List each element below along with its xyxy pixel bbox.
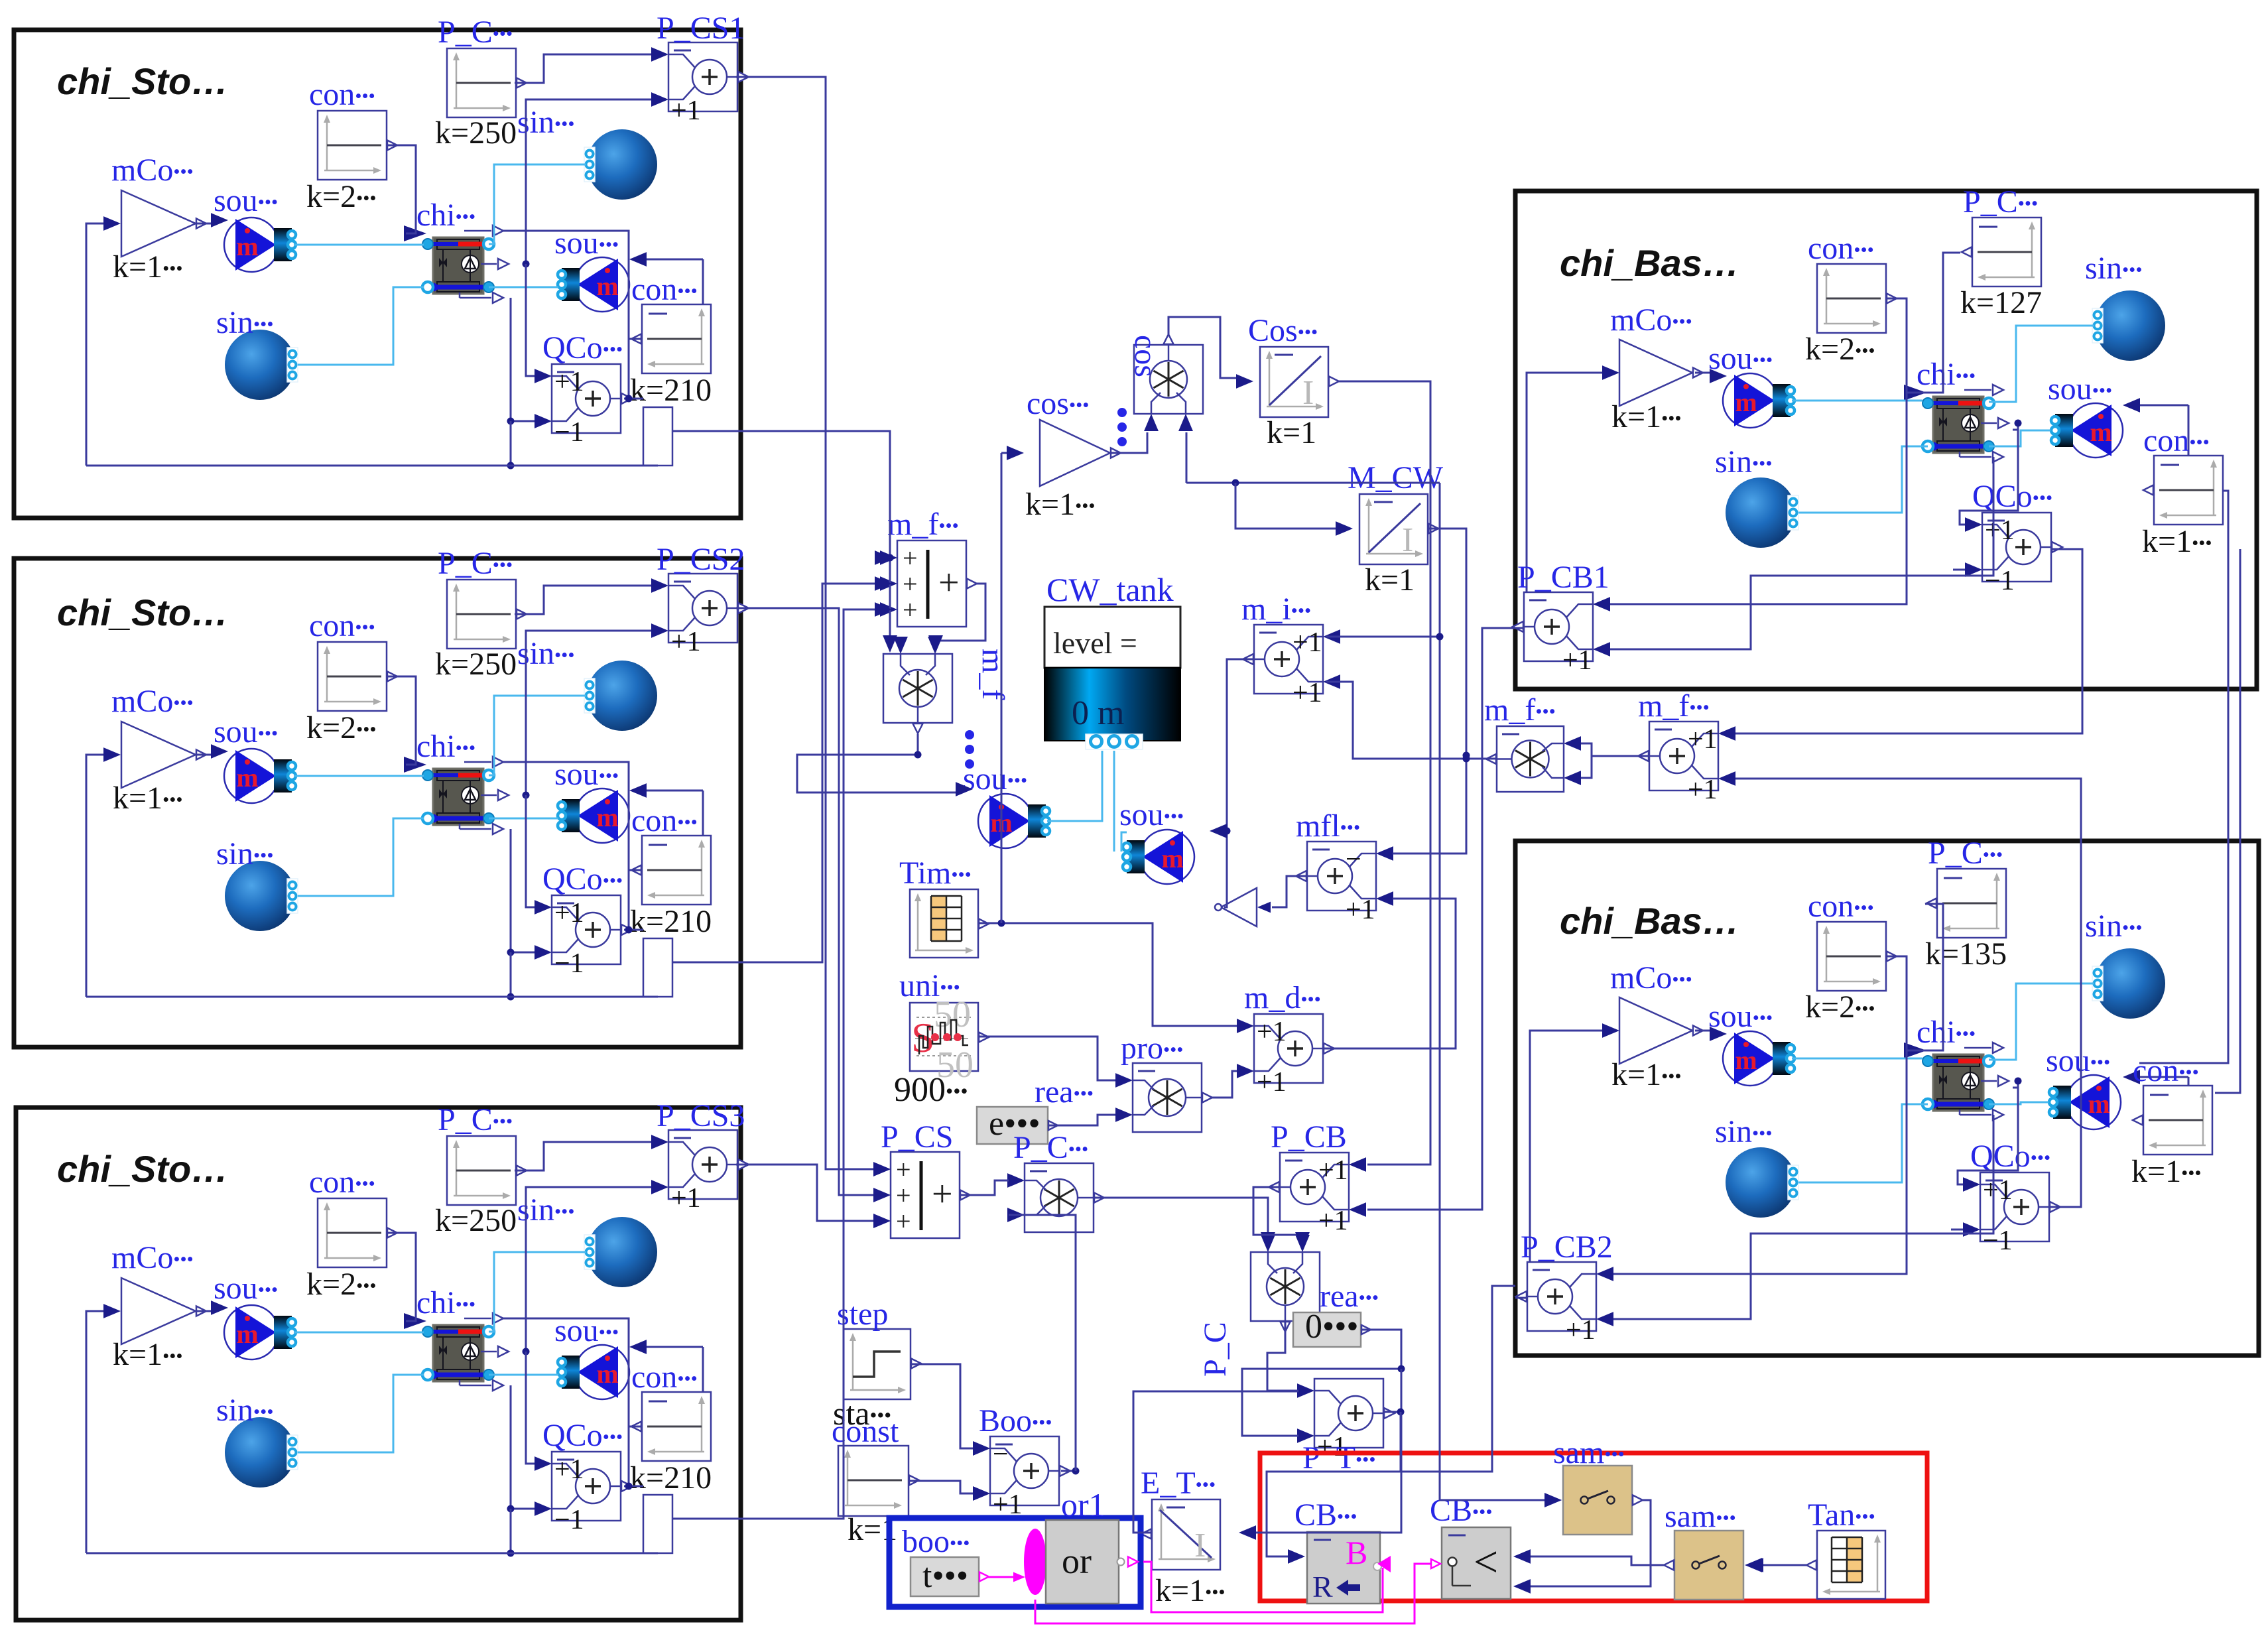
- svg-text:k=250: k=250: [435, 115, 517, 151]
- value k=1 (Bas1): [1611, 399, 1682, 434]
- flip-flop CB_B: [1307, 1532, 1381, 1604]
- label sin2 (Bas2): [1715, 1114, 1772, 1149]
- wire branch m_f in1: [885, 557, 890, 559]
- label m_f_ (rotated): [976, 649, 1011, 700]
- adder P_CS1: [651, 42, 749, 126]
- const con2 k=210 (3): [631, 1392, 711, 1461]
- arrowhead sou2 control (2): [629, 783, 647, 798]
- const con1 k=2 (Bas1): [1817, 264, 1897, 333]
- svg-text:m: m: [236, 231, 258, 261]
- svg-text:or: or: [1062, 1541, 1092, 1581]
- value k=1 (1): [113, 249, 183, 285]
- value k=1 (Bas2): [1611, 1057, 1682, 1092]
- wire Cos to P_CB: [1339, 381, 1430, 1165]
- pump sou2 (2): [558, 789, 629, 843]
- value k=1 M_CW: [1365, 562, 1415, 598]
- value k=2 (2): [306, 710, 377, 745]
- value k=2 (Bas1): [1805, 332, 1875, 367]
- label P_CS1: [657, 11, 745, 46]
- pump sou1 (1): [224, 218, 296, 272]
- wire chi P to QCo (Bas1): [1960, 423, 2018, 525]
- wire uni to pro: [978, 1037, 1115, 1080]
- wire QCo Bas2 to m_f adder b: [1735, 779, 2081, 1207]
- label step: [837, 1297, 888, 1332]
- chiller chi (3): [404, 1313, 509, 1391]
- svg-text:m: m: [596, 271, 618, 301]
- junction chi P (3): [523, 1348, 530, 1356]
- wire Boo out: [1061, 1470, 1074, 1472]
- sphere sin1 (1): [584, 129, 657, 200]
- gain mCo (Bas1): [1619, 340, 1703, 406]
- comparator CB less: [1442, 1527, 1511, 1599]
- svg-text:cos: cos: [1128, 335, 1163, 377]
- svg-text:const: const: [832, 1414, 899, 1449]
- const con2 k=210 (2): [631, 836, 711, 905]
- wire product to Cos: [1168, 317, 1237, 378]
- label m_f adder right: [1638, 688, 1710, 724]
- svg-text:m: m: [1735, 387, 1757, 417]
- svg-text:chi_Bas…: chi_Bas…: [1560, 900, 1739, 942]
- wire QCo lower stub (Bas2): [1951, 1229, 1963, 1231]
- wire chi bottom out down (1): [510, 421, 512, 466]
- fluid wire sin2 to chi (3): [298, 1375, 424, 1452]
- adder m_d: [1237, 1014, 1334, 1098]
- label m_f sum: [887, 507, 959, 542]
- wire con2 down (2): [628, 869, 630, 930]
- wire chi P to P_CS3: [526, 1187, 651, 1352]
- svg-text:+1: +1: [1257, 1017, 1287, 1047]
- arrowhead sou1 control (Bas2): [1710, 1027, 1727, 1041]
- arrowhead m_f in2: [875, 576, 892, 591]
- wire P_C to P_CS1: [515, 54, 651, 83]
- subsystem box chi_Bas2: [1515, 841, 2259, 1356]
- multiplier P_C (center): [1007, 1163, 1104, 1232]
- adder P_CB2: [1516, 1262, 1613, 1346]
- label chi (2): [416, 729, 475, 764]
- wire chi top out (1): [503, 231, 629, 339]
- value k=2 (Bas2): [1805, 989, 1875, 1025]
- value k=210 (3): [630, 1460, 712, 1495]
- step source sta: [844, 1329, 921, 1399]
- wire P_CS1 exit: [736, 76, 741, 78]
- arrowhead Boo in2: [973, 1486, 990, 1501]
- junction QCo lower (2): [507, 949, 515, 956]
- pump sou1 (Bas2): [1723, 1031, 1795, 1086]
- label cos product (rotated): [1128, 335, 1163, 377]
- svg-text:k=210: k=210: [630, 373, 712, 408]
- fluid wire sou1 to chi (Bas1): [1792, 400, 1922, 402]
- wire Tan to sam2: [1762, 1564, 1806, 1566]
- sphere sin2 (3): [225, 1417, 298, 1488]
- value k=1 Cos: [1267, 415, 1316, 450]
- multiplier m_f (right): [1486, 726, 1581, 792]
- wire M_CW to mfl upper: [1393, 529, 1466, 854]
- junction sou4 control: [1224, 828, 1231, 835]
- wire chi P to P_CS2: [526, 631, 651, 795]
- wire chi P to QCo upper (2): [526, 795, 535, 907]
- arrowhead or input (magenta): [1013, 1572, 1025, 1582]
- wire chi P to P_CS1: [526, 99, 651, 264]
- svg-text:B: B: [1346, 1534, 1367, 1571]
- label QCo (2): [542, 861, 623, 897]
- value 900: [894, 1071, 968, 1109]
- junction x2211: [1463, 755, 1470, 763]
- ramp block Cos (k=1): [1260, 347, 1339, 417]
- label sin1 (Bas2): [2085, 909, 2142, 944]
- svg-text:−1: −1: [554, 948, 584, 979]
- sphere sin1 (Bas1): [2092, 290, 2165, 361]
- label mCo (1): [111, 153, 194, 188]
- fluid wire chi to sin1 (2): [489, 696, 586, 775]
- junction M_CW bus: [1463, 752, 1470, 759]
- wire P_T out: [1383, 1411, 1401, 1413]
- wire sensor exit (2): [672, 962, 741, 964]
- label QCo (1): [542, 330, 623, 365]
- label Boo: [979, 1403, 1052, 1438]
- svg-text:+1: +1: [1562, 645, 1592, 676]
- label sou2 (Bas1): [2048, 371, 2112, 407]
- junction QCo-con2 (2): [625, 926, 633, 934]
- label P_C (3): [438, 1102, 513, 1137]
- wire right margin bus: [2139, 491, 2228, 1063]
- value k=250 (2): [435, 647, 517, 682]
- label sou1 (2): [214, 714, 278, 749]
- fluid wire sin2 to chi (1): [298, 287, 424, 365]
- wire P_CS1 to P_CS sum: [741, 77, 879, 1169]
- wire bus to m_i upper: [1326, 636, 1440, 638]
- arrowhead CB_B input: [1288, 1549, 1305, 1564]
- const con1 k=2 (Bas2): [1817, 922, 1897, 991]
- group frame (blue) or1: [889, 1518, 1141, 1607]
- wire feedback bottom (3): [86, 1552, 658, 1554]
- wire feedback to mCo (2): [86, 755, 105, 997]
- wire P_C to P_CS3: [515, 1142, 651, 1171]
- label m_d: [1244, 980, 1321, 1015]
- svg-text:or1: or1: [1061, 1486, 1105, 1523]
- wire to sou4 control: [1214, 830, 1227, 832]
- multiplier pro: [1115, 1063, 1212, 1132]
- value k=127 (Bas1): [1960, 285, 2042, 320]
- wire con2 out (1): [629, 338, 642, 340]
- svg-text:P_CS2: P_CS2: [657, 542, 745, 577]
- arrowhead sam1 input: [1544, 1493, 1562, 1507]
- logic block or: [1046, 1520, 1125, 1604]
- svg-text:+1: +1: [1688, 775, 1718, 805]
- label rea 0: [1320, 1279, 1379, 1314]
- wire chi bottom to QCo lower (2): [511, 829, 535, 952]
- arrowhead mCo input (1): [103, 216, 121, 231]
- svg-text:+: +: [932, 1174, 953, 1215]
- sphere sin2 (Bas1): [1726, 477, 1798, 548]
- value k=2 (3): [306, 1267, 377, 1302]
- label sin2 (3): [216, 1393, 273, 1428]
- time table Tim: [910, 889, 989, 958]
- arrowhead CB less in2: [1513, 1579, 1531, 1594]
- label P_CS2: [657, 542, 745, 577]
- wire QCo3 bus to m_f: [741, 609, 885, 1519]
- svg-text:+: +: [896, 1206, 911, 1236]
- adder QCo (1): [535, 364, 632, 448]
- wire QCo out (3): [624, 1486, 643, 1488]
- wire P_C to P_CS2: [515, 586, 651, 614]
- wire to sou2 control (2): [646, 790, 703, 792]
- fluid wire tank to sou4: [1113, 751, 1115, 852]
- sensor block (2): [643, 938, 672, 997]
- label P_CB2: [1521, 1230, 1613, 1265]
- wire to sou2 control (3): [646, 1346, 703, 1348]
- junction chi P (1): [523, 261, 530, 268]
- label sou2 (1): [554, 225, 619, 261]
- adder P_CB: [1269, 1153, 1366, 1236]
- value sta: [833, 1395, 891, 1432]
- time table Tan: [1806, 1531, 1885, 1599]
- wire pro to m_d: [1212, 1071, 1237, 1098]
- const P_C k=135 (Bas2): [1926, 869, 2006, 938]
- wire feedback to mCo (3): [86, 1311, 105, 1553]
- wire P_CS3 exit: [736, 1164, 741, 1166]
- svg-text:+1: +1: [1257, 1067, 1287, 1098]
- svg-text:k=210: k=210: [630, 1460, 712, 1495]
- label P_CB: [1271, 1119, 1347, 1155]
- adder m_i: [1243, 625, 1340, 708]
- const con2 k=1 (Bas2): [2133, 1086, 2212, 1155]
- wire P_CB1 to P_CB: [1367, 628, 1515, 1210]
- label rea e: [1035, 1074, 1094, 1109]
- wire Tim to m_d: [978, 923, 1237, 1026]
- wire QCo Bas1 to m_f adder a: [1735, 549, 2082, 733]
- wire P_C to chi (Bas1): [1906, 253, 1960, 393]
- svg-text:+: +: [938, 562, 960, 603]
- wire chi P stub (Bas2): [2013, 1087, 2018, 1089]
- junction rea0: [1398, 1365, 1405, 1373]
- wire const to Boo: [909, 1481, 974, 1493]
- value k=1b (Bas2): [2131, 1154, 2202, 1189]
- wire mCo to sou1 (Bas1): [1695, 372, 1711, 374]
- wire con1 to chi (2): [387, 676, 416, 765]
- label P_CS sum: [881, 1119, 953, 1155]
- svg-text:m: m: [1161, 844, 1183, 873]
- wire bus y728: [1186, 482, 1440, 484]
- const P_C k=250 (3): [447, 1136, 527, 1205]
- magenta input ellipse (or): [1024, 1529, 1046, 1595]
- svg-text:k=250: k=250: [435, 647, 517, 682]
- arrowhead Cos input: [1236, 374, 1253, 389]
- wire to sou2 control (Bas2): [2139, 1076, 2188, 1078]
- label sou1 (Bas2): [1708, 999, 1773, 1034]
- label chi (1): [416, 198, 475, 233]
- subsystem box chi_Sto2: [14, 558, 741, 1047]
- arrowhead P_CS in1: [873, 1162, 891, 1176]
- wire feedback to mCo (Bas2): [1530, 1031, 1604, 1298]
- svg-text:k=1: k=1: [1365, 562, 1415, 598]
- fluid wire sou4 port: [1121, 832, 1127, 852]
- svg-text:−: −: [1346, 844, 1361, 875]
- fluid wire chi to sin2 (Bas2): [1798, 1104, 1928, 1182]
- arrowhead P_C_ in2: [1295, 1232, 1310, 1249]
- label chi (Bas2): [1917, 1015, 1976, 1050]
- fluid wire chi to sou2 (Bas2): [1989, 1102, 2048, 1104]
- svg-text:+1: +1: [1318, 1155, 1348, 1186]
- fluid wire chi to sou2 (1): [489, 286, 558, 288]
- svg-text:chi_Sto…: chi_Sto…: [57, 1148, 228, 1190]
- label sou3: [963, 761, 1027, 796]
- fluid wire chi to sin1 (3): [489, 1252, 586, 1332]
- svg-text:m: m: [596, 1359, 618, 1389]
- svg-text:I: I: [1194, 1527, 1206, 1564]
- label CB_less: [1430, 1493, 1493, 1528]
- label sou4: [1119, 797, 1184, 832]
- wire con2 out (2): [629, 869, 642, 871]
- label sou2 (3): [554, 1313, 619, 1348]
- wire QCo out (2): [624, 929, 643, 931]
- junction Boo out: [1072, 1468, 1080, 1475]
- value k=250 (3): [435, 1203, 517, 1238]
- adder mfl: [1296, 842, 1393, 925]
- label boo: [902, 1524, 970, 1559]
- svg-text:+1: +1: [554, 898, 584, 928]
- arrowhead sou2 control (3): [629, 1340, 647, 1354]
- gain mCo (Bas2): [1619, 997, 1703, 1064]
- arrowhead m_f_ in2: [928, 635, 943, 653]
- wire mCo to sou1 (3): [197, 1310, 212, 1312]
- wire mfl to small gain: [1272, 876, 1307, 907]
- wire to sou2 control (1): [646, 259, 703, 261]
- wire chi bottom out down (2): [510, 952, 512, 997]
- arrowhead sou1 control (1): [211, 213, 228, 227]
- value k=1 (2): [113, 781, 183, 816]
- gain mCo (1): [121, 190, 206, 257]
- wire feedback bottom (1): [86, 465, 658, 467]
- wire feedback bottom (2): [86, 996, 658, 998]
- label P_C (1): [438, 15, 513, 50]
- wire sam2 to CB less a: [1528, 1556, 1664, 1565]
- svg-text:−1: −1: [554, 417, 584, 448]
- wire sensor exit (1): [672, 430, 741, 432]
- svg-text:−1: −1: [1983, 1226, 2013, 1256]
- arrowhead mCo input (3): [103, 1304, 121, 1318]
- wire chi top out (2): [503, 762, 629, 870]
- wire boo to or (magenta): [987, 1576, 1019, 1578]
- wire P_CS2 to P_CS sum: [741, 608, 879, 1195]
- svg-text:+1: +1: [554, 1454, 584, 1485]
- label sin1 (Bas1): [2085, 251, 2142, 286]
- adder QCo (2): [535, 895, 632, 979]
- svg-text:+1: +1: [1292, 678, 1322, 708]
- svg-text:I: I: [1302, 374, 1314, 412]
- label mCo (3): [111, 1240, 194, 1275]
- junction chi P (Bas2): [2015, 1078, 2022, 1085]
- fluid wire chi to sou2 (Bas1): [1989, 430, 2050, 446]
- wire CB less to or loop (magenta): [1035, 1564, 1432, 1623]
- wire right margin bus b: [2215, 549, 2240, 1093]
- wire chi bottom to QCo lower (1): [511, 298, 535, 421]
- subsystem box chi_Sto1: [14, 30, 741, 518]
- label sin2 (Bas1): [1715, 444, 1772, 479]
- wire P_C center to P_C_ a: [1094, 1198, 1268, 1241]
- svg-text:M_CW: M_CW: [1348, 460, 1444, 495]
- junction QCo lower (1): [507, 418, 515, 425]
- fluid wire chi to sou2 (2): [489, 818, 558, 820]
- ramp block E_T (k=1): [1141, 1499, 1220, 1570]
- wire Boo to P_C lower: [1009, 1215, 1076, 1471]
- wire con1 to P_CB2 a: [1613, 956, 1907, 1274]
- svg-text:chi_Sto…: chi_Sto…: [57, 60, 228, 102]
- label mCo (Bas2): [1610, 960, 1692, 995]
- adder P_CS3: [651, 1130, 749, 1214]
- svg-text:chi_Sto…: chi_Sto…: [57, 592, 228, 633]
- pump sou4 (tank draw): [1123, 830, 1194, 884]
- wire feedback to mCo (Bas1): [1527, 373, 1604, 628]
- gain triangle (left): [1215, 888, 1257, 926]
- wire con2 down (1): [628, 338, 630, 399]
- svg-text:+1: +1: [671, 95, 701, 126]
- svg-text:<: <: [1474, 1538, 1498, 1586]
- wire con2 down (3): [628, 1426, 630, 1486]
- pump sou2 (3): [558, 1345, 629, 1399]
- value k=1 cos: [1025, 487, 1096, 522]
- svg-text:level =: level =: [1053, 626, 1137, 660]
- wire chi bottom to P_CB2 b: [1613, 1115, 1993, 1319]
- wire con1 to chi (3): [387, 1233, 416, 1321]
- label con1 (1): [309, 77, 375, 112]
- label P_C center: [1013, 1130, 1088, 1165]
- arrowhead m_f_ in1: [883, 635, 897, 653]
- label P_T: [1302, 1440, 1375, 1476]
- label const: [832, 1414, 899, 1449]
- wire con1 to chi (1): [387, 145, 416, 233]
- real expression rea 0: [1293, 1308, 1371, 1347]
- arrowhead M_CW input: [1336, 521, 1353, 536]
- arrowhead Boo in1: [973, 1441, 990, 1456]
- wire chi bottom to QCo lower (3): [511, 1385, 535, 1509]
- arrowhead sou4 control: [1210, 824, 1227, 838]
- title chi_Sto3: [57, 1148, 228, 1190]
- wire P_CB to P_C_ b: [1253, 1187, 1302, 1241]
- pump sou2 (1): [558, 257, 629, 312]
- sphere sin2 (Bas2): [1726, 1147, 1798, 1218]
- wire P_CS2 exit: [736, 607, 741, 609]
- label E_T: [1141, 1466, 1216, 1501]
- fluid wire chi to sin1 (Bas2): [1989, 983, 2094, 1060]
- arrowhead sou2 control (Bas2): [2123, 1070, 2140, 1084]
- svg-text:k=210: k=210: [630, 904, 712, 939]
- junction y728 M_CW: [1232, 479, 1239, 487]
- adder m_f (right): [1638, 722, 1735, 805]
- wire sensor exit (3): [672, 1518, 741, 1520]
- arrowhead sou1 control (3): [211, 1300, 228, 1315]
- svg-text:k=250: k=250: [435, 1203, 517, 1238]
- wire product in2 riser: [1186, 432, 1188, 483]
- svg-text:m: m: [236, 1319, 258, 1349]
- adder P_T: [1297, 1379, 1395, 1462]
- title chi_Bas2: [1560, 900, 1739, 942]
- svg-text:CW_tank: CW_tank: [1046, 571, 1174, 608]
- svg-text:+1: +1: [1292, 627, 1322, 658]
- label sou1 (Bas1): [1708, 341, 1773, 376]
- label sin1 (1): [517, 105, 574, 140]
- multiplier m_f_: [883, 637, 952, 733]
- const con1 k=2 (1): [318, 111, 397, 180]
- label chi (Bas1): [1917, 357, 1976, 392]
- junction QCo-con2 (1): [625, 395, 633, 403]
- junction QCo lower (3): [507, 1505, 515, 1513]
- const con2 k=210 (1): [631, 304, 711, 373]
- const con2 k=1 (Bas1): [2143, 456, 2223, 525]
- multiplier product (cos): [1134, 334, 1203, 431]
- wire into M_CW: [1235, 483, 1337, 529]
- svg-text:−1: −1: [554, 1505, 584, 1535]
- label sou2 (Bas2): [2046, 1043, 2110, 1078]
